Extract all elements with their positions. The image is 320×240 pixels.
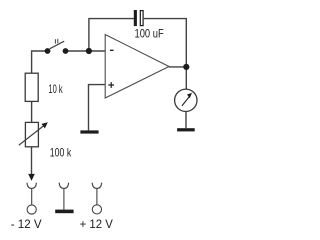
svg-text:+ 12 V: + 12 V <box>80 217 113 231</box>
svg-text:- 12 V: - 12 V <box>11 217 42 231</box>
svg-text:100 uF: 100 uF <box>135 26 164 40</box>
svg-text:100 k: 100 k <box>50 145 71 159</box>
svg-text:10 k: 10 k <box>48 82 62 96</box>
